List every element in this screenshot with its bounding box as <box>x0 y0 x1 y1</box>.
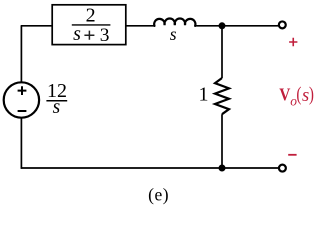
svg-text:2: 2 <box>86 5 96 27</box>
node B (bottom junction dot) <box>219 165 226 172</box>
red + polarity mark <box>289 38 297 46</box>
terminal: + output (open circle) <box>279 21 286 28</box>
wire: node A down to resistor <box>221 26 223 78</box>
svg-text:(e): (e) <box>148 185 169 205</box>
label: block denominator plus sign <box>84 31 94 40</box>
wire: left vertical top (source to top rail) <box>20 26 22 83</box>
source - mark <box>18 110 27 112</box>
resistor R = 1 (zigzag) <box>215 78 229 114</box>
svg-text:): ) <box>309 83 314 105</box>
wire: resistor to node B <box>221 114 223 168</box>
svg-text:3: 3 <box>100 25 110 46</box>
fraction bar of 2/(s+3) <box>72 24 111 26</box>
svg-text:s: s <box>73 23 81 45</box>
wire: block to inductor <box>126 25 155 27</box>
node A (top junction dot) <box>219 22 226 29</box>
svg-text:1: 1 <box>199 84 209 106</box>
svg-text:V: V <box>279 85 290 105</box>
terminal: - output (open circle) <box>279 165 286 172</box>
svg-text:s: s <box>302 86 309 106</box>
wire: bottom rail <box>21 167 279 169</box>
block H(s) = 2/(s+3) <box>52 5 126 45</box>
wire: source bottom to bottom rail <box>20 118 22 169</box>
fraction bar of 12/s <box>46 100 67 102</box>
voltage source Vs = 12/s (independent source circle) <box>4 82 39 117</box>
inductor L (value s) <box>154 19 195 26</box>
red - polarity mark <box>288 154 296 156</box>
source + mark <box>18 86 27 95</box>
wire: top-left horizontal into block <box>21 25 53 27</box>
svg-text:s: s <box>53 97 61 118</box>
svg-text:(: ( <box>296 83 301 105</box>
wire: inductor to node A and on to + terminal <box>195 25 278 27</box>
svg-text:s: s <box>170 24 177 44</box>
